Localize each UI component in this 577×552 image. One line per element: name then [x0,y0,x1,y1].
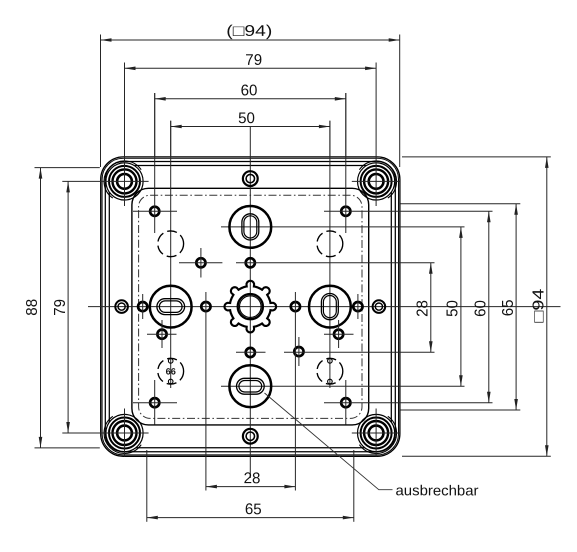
cable gland knockout left circle [150,286,192,328]
gland row centreline top [221,226,465,228]
corner screw boss top-left counterbore [113,169,137,193]
cable gland right slot outer [321,294,338,320]
enclosure lid top-surface contour [109,166,391,448]
horizontal centreline [88,306,561,308]
mounting hole 28-grid top [246,258,255,267]
svg-text:65: 65 [500,299,517,316]
column through left 28-hole [205,292,207,491]
svg-text:28: 28 [415,300,432,317]
dashed knockout circle bottom-right [317,358,343,384]
cable gland bottom slot inner [239,381,262,393]
lid rim screw right inner [375,303,382,310]
screw centreline bottom-left vertical [124,409,126,457]
hole beside left gland vertical [142,294,144,319]
dashed knockout circle top-left [158,231,184,257]
crosshair row y=262.8 to right 28 dim [236,262,435,264]
svg-text:□94: □94 [531,288,548,322]
centre knockout inner thin ring [240,296,262,318]
auxiliary hole below left gland [157,330,166,339]
gland column centreline right [329,121,331,388]
pilot circle bottom-right knockout lower [328,379,333,384]
cable gland knockout top circle [229,206,271,248]
dimension square94 right [531,157,549,456]
extension line 65 bottom-left [146,450,148,522]
extension line 88 top [35,167,100,169]
screw centreline bottom-right horizontal [352,432,400,434]
screw centreline top-right horizontal [352,180,400,182]
extension line 50 left [170,121,172,158]
dimension 60 top [155,82,346,100]
corner screw boss bottom-left outer wrap arc [104,416,141,453]
vertical centreline [249,127,251,479]
extension line 94 top-right [399,35,401,168]
corner screw boss bottom-left wrap arc [106,414,143,451]
svg-text:(□94): (□94) [226,23,272,40]
sealing groove centreline frame (dash-dot) [139,195,362,418]
lid rim screw top inner [246,174,254,182]
corner screw boss bottom-right wrap arc [358,414,395,451]
lid rim screw right [373,300,386,313]
lid rim screw bottom inner [246,432,254,440]
aux hole left crosshair h [147,333,177,335]
extension line 60 right [345,93,347,157]
corner hole column left lower [154,380,156,425]
screw centreline bottom-right vertical [375,409,377,457]
svg-text:79: 79 [245,52,262,69]
corner hole row y=211.3 to 60 dim [324,210,493,212]
cable gland left slot inner [159,301,182,313]
corner boss clearing [357,414,395,452]
corner hole column right upper [345,93,347,233]
corner hole column left upper [154,93,156,233]
cable gland top slot outer [242,214,259,240]
corner screw boss bottom-right counterbore [364,421,388,445]
svg-text:66: 66 [166,366,176,376]
mounting hole 28-grid bottom [246,348,255,357]
svg-text:60: 60 [241,82,258,99]
dimension 50 right [445,227,463,386]
dimension 65 right [500,204,518,410]
extension line 79-left bottom [62,432,100,434]
leader line to knockout [265,393,393,490]
corner screw boss bottom-left counterbore [113,421,137,445]
cable gland knockout bottom circle [229,365,271,407]
corner hole row y=402.1 to 60 dim [324,402,493,404]
extension line 79 right [375,63,377,158]
svg-text:28: 28 [244,470,261,487]
extension line 65 bottom [400,409,520,411]
extension line 65 bottom-right [353,450,355,522]
corner screw boss top-left hole [117,174,132,189]
dimension 28 bottom [206,470,296,488]
svg-text:65: 65 [245,501,262,518]
corner boss clearing [106,162,144,200]
corner screw boss top-right hole [369,174,384,189]
svg-text:50: 50 [445,300,462,317]
gland column centreline left [170,121,172,388]
crosshair rows y=262.8 [179,262,222,264]
screw centreline top-right vertical lower part [375,157,377,206]
corner screw boss top-left outer wrap arc [104,161,141,198]
corner boss clearing [106,414,144,452]
svg-text:79: 79 [52,299,69,316]
svg-text:50: 50 [238,110,255,127]
corner screw boss top-left wrap arc [106,163,143,200]
gland row centreline bottom [221,385,465,387]
corner boss clearing [357,162,395,200]
lid rim screw top [243,171,258,186]
mounting hole diagonal upper-left [196,258,205,267]
dimension 79 top [125,52,377,70]
pilot circle bottom-right knockout upper [328,359,333,364]
aux hole left crosshair v [161,320,163,348]
corner screw boss top-left outer ring [109,166,140,197]
lid rim screw bottom [243,429,258,444]
corner hole row y=402.1 left [133,402,177,404]
svg-text:60: 60 [473,300,490,317]
auxiliary hole below right gland [334,330,343,339]
cable gland bottom slot outer [237,378,265,394]
corner screw boss bottom-left hole [117,426,132,441]
enclosure lid outer edge [102,158,398,455]
lid recessed panel outline [132,188,369,425]
lid rim screw left inner [118,303,125,310]
mounting hole beside right gland [353,302,362,311]
cable gland top slot inner [244,216,257,238]
mounting hole beside left gland [138,302,147,311]
screw centreline bottom-left horizontal [100,432,148,434]
corner screw boss top-right wrap arc [358,163,395,200]
svg-text:88: 88 [24,299,41,316]
corner screw boss bottom-left outer ring [109,418,140,449]
dashed knockout circle bottom-left [158,358,184,384]
diagonal hole lower-right vertical [298,337,300,366]
extension line 79-left top [62,180,100,182]
enclosure body outer outline [101,157,400,456]
corner screw boss top-right outer wrap arc [359,161,396,198]
corner hole column right lower [345,380,347,425]
crosshair row y=352.3 to right 28 dim [284,351,435,353]
mounting hole 28-grid left [201,302,210,311]
extension line 94 top-left [100,35,102,168]
lid rim screw left [115,300,128,313]
mounting hole diagonal lower-right [294,347,303,356]
cable gland right slot inner [323,296,336,318]
extension line 88 bottom [35,447,100,449]
extension line 60 left [154,93,156,157]
enclosure wall step contour [105,162,395,452]
dashed knockout circle top-right [317,231,343,257]
mounting hole 60-grid top-left [150,207,159,216]
corner screw boss top-right counterbore [364,169,388,193]
corner screw boss bottom-right outer ring [361,418,392,449]
screw centreline top-left horizontal [100,180,148,182]
extension line square94 right top [402,156,551,158]
corner hole row y=211.3 left [133,210,177,212]
screw centreline top-left vertical lower part [124,157,126,206]
corner screw boss bottom-right outer wrap arc [359,416,396,453]
corner screw boss bottom-right hole [369,426,384,441]
aux hole right crosshair v [338,320,340,348]
extension line square94 right bottom [402,455,551,457]
dimension 28 right [415,263,433,353]
mounting hole 60-grid bottom-left [150,398,159,407]
dimension 79 left [52,181,70,433]
mounting hole 60-grid top-right [341,207,350,216]
diagonal hole upper-left vertical [200,248,202,278]
centre knockout inner ring [238,294,263,319]
dimension 65 bottom [147,501,354,519]
extension line 50 right [329,121,331,158]
extension line 65 top [400,203,520,205]
extension line 79 left [124,63,126,158]
crosshair row y=352.3 centre part [236,351,266,353]
svg-text:ausbrechbar: ausbrechbar [395,483,478,499]
dimension (square94) top [101,23,400,42]
mounting hole 28-grid right [291,302,300,311]
centre gear-shaped knockout outline [225,281,277,333]
cable gland left slot outer [157,299,185,315]
hole beside right gland vertical [357,294,359,319]
pilot circle bottom-left knockout upper [168,359,173,364]
dimension 88 left [24,168,42,448]
mounting hole 60-grid bottom-right [341,398,350,407]
cable gland knockout right circle [309,286,351,328]
dimension 60 right [473,211,491,402]
corner screw boss top-right outer ring [361,166,392,197]
aux hole right crosshair h [324,333,354,335]
dimension 50 top [171,110,330,128]
column through right 28-hole [294,292,296,491]
pilot circle bottom-left knockout lower [168,379,173,384]
